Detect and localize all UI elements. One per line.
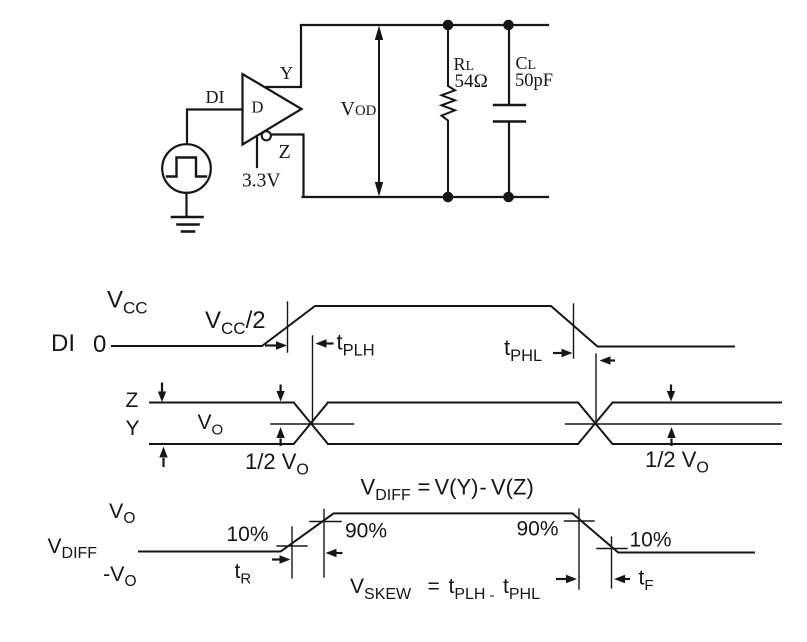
arrow to fall crossing [553, 352, 562, 354]
arrow up at Y left [162, 458, 164, 467]
tick fall 90% vertical [578, 509, 580, 589]
tick rise 90% horizontal [310, 521, 341, 523]
arrow tPLH left [326, 342, 334, 344]
waveform Y [150, 403, 328, 445]
waveform VDIFF [139, 513, 754, 552]
arrow vskew left [336, 552, 343, 554]
svg-text:3.3V: 3.3V [242, 171, 280, 192]
node top-left junction [443, 20, 454, 31]
ground [172, 217, 203, 232]
arrow vskew right [556, 578, 567, 580]
svg-text:50pF: 50pF [515, 71, 553, 91]
wire Z output [272, 135, 304, 197]
svg-text:10%: 10% [227, 523, 269, 546]
svg-text:54Ω: 54Ω [455, 71, 489, 92]
tick fall 10% vertical [611, 537, 613, 588]
inversion bubble [262, 131, 271, 140]
arrow up 1/2 VO left [280, 439, 282, 447]
arrow up 1/2 VO right [670, 439, 672, 447]
arrow tPHL left [610, 359, 615, 361]
wire Y output [267, 26, 302, 87]
tick DI rise crossing [287, 302, 289, 352]
wire source to ground [185, 193, 187, 216]
waveform lower between crossings [328, 403, 781, 445]
op-amp U1 driver triangle D [243, 74, 302, 145]
node bottom-left junction [443, 192, 454, 203]
svg-text:Y: Y [126, 417, 140, 440]
tick fall 10% horizontal [597, 548, 627, 550]
node bottom-right junction [503, 192, 514, 203]
wire bottom bus (Z to load) [303, 196, 549, 198]
mid reference line left [271, 423, 354, 425]
tick rise 10% vertical [291, 527, 293, 578]
capacitor CL [508, 25, 510, 104]
waveform upper between crossings [328, 403, 781, 445]
tick DI fall crossing [573, 304, 575, 358]
mid reference line right [566, 423, 782, 425]
svg-text:0: 0 [93, 331, 106, 358]
svg-text:Y: Y [280, 63, 293, 83]
svg-text:90%: 90% [517, 518, 559, 541]
svg-text:D: D [252, 98, 264, 117]
VOD measurement arrow [378, 36, 380, 186]
resistor RL [442, 25, 456, 197]
pulse generator source [162, 144, 211, 193]
pulse symbol [167, 158, 206, 177]
arrow down 1/2 VO right [670, 385, 672, 393]
svg-text:DI: DI [51, 330, 75, 357]
waveform Z [150, 403, 328, 445]
arrow to rise crossing [265, 339, 615, 364]
waveform DI [112, 306, 734, 347]
arrow tR right [272, 558, 280, 560]
arrow down at Z left [158, 383, 676, 468]
svg-text:DI: DI [206, 87, 225, 107]
tick rise 90% vertical [323, 510, 325, 578]
reference line tPHL end [595, 354, 597, 424]
VOD arrowheads [375, 26, 383, 41]
svg-text:10%: 10% [630, 529, 672, 552]
wire DI input [187, 110, 243, 145]
arrow tF left [625, 578, 631, 580]
tick fall 90% horizontal [565, 520, 595, 522]
svg-text:Z: Z [126, 389, 139, 412]
reference line tPLH end [312, 336, 314, 424]
svg-text:Z: Z [279, 141, 291, 163]
node top-right junction [503, 20, 514, 31]
wire top bus (Y to load) [301, 24, 548, 26]
svg-text:90%: 90% [345, 520, 387, 543]
tick rise 10% horizontal [277, 545, 307, 547]
arrow down 1/2 VO left [280, 385, 282, 393]
wire 3.3V supply [256, 136, 258, 167]
